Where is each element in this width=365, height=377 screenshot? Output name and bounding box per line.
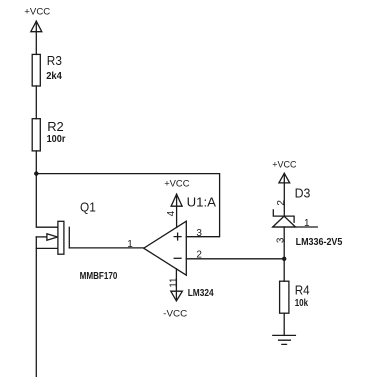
resistor R4 body [280,281,289,313]
op-amp plus input marker [174,233,181,240]
svg-text:1: 1 [127,239,133,250]
wire node B to R4 [283,259,285,281]
op-amp minus input marker [174,257,181,259]
wire opamp inverting input pin 2 to node B [186,258,284,260]
op-amp U1:A triangle [144,221,187,275]
svg-text:1: 1 [304,218,310,229]
transistor Q1 gate electrode [68,227,70,248]
wire node A down to Q1 drain [36,174,58,228]
power +VCC arrow (D3) [279,173,290,183]
wire R4 to ground [283,313,285,335]
diode D3 anode triangle [273,216,296,227]
wire opamp pin 11 [175,269,177,301]
svg-text:LM324: LM324 [188,288,214,299]
power -VCC arrow (op-amp pin 11) [171,291,183,301]
svg-text:2: 2 [276,200,287,206]
svg-text:3: 3 [196,228,202,239]
svg-text:R4: R4 [295,283,310,298]
svg-text:D3: D3 [295,186,311,201]
wire R2 to node A [35,151,37,174]
resistor R3 body [32,54,40,86]
svg-text:R2: R2 [47,119,64,134]
svg-text:+VCC: +VCC [272,159,296,170]
Q1 bulk arrow [47,234,58,241]
wire Q1 gate to opamp output [69,247,143,249]
svg-text:4: 4 [166,210,177,216]
svg-text:U1:A: U1:A [187,194,217,209]
wire VCC arrow to R3 [35,21,37,54]
svg-text:-VCC: -VCC [163,309,187,320]
ground symbol [273,335,296,344]
resistor R2 body [32,119,40,151]
wire opamp pin 4 [176,194,178,227]
svg-text:LM336-2V5: LM336-2V5 [296,237,343,248]
power +VCC arrow symbol (left rail) [31,21,42,32]
svg-text:11: 11 [168,277,179,288]
svg-text:100r: 100r [47,134,66,145]
svg-text:3: 3 [276,237,287,243]
svg-text:+VCC: +VCC [164,179,189,190]
transistor Q1 body bar [58,221,64,254]
node A junction dot [34,171,38,175]
diode D3 zener cathode bar [273,210,294,222]
wire R3 to R2 [35,86,37,119]
svg-text:Q1: Q1 [80,200,96,215]
power +VCC arrow (op-amp pin 4) [171,194,182,206]
wire Q1 bulk to source rail [36,236,47,238]
wire VCC arrow to D3 cathode [283,173,285,216]
wire source rail down to page bottom [35,237,37,377]
wire feedback node A to opamp noninverting input [36,174,219,237]
svg-text:2k4: 2k4 [46,71,62,82]
svg-text:+VCC: +VCC [24,7,50,18]
wire D3 anode to node B [283,227,285,259]
node B junction dot [282,257,286,261]
wire Q1 source [36,247,58,249]
svg-text:MMBF170: MMBF170 [80,271,118,282]
svg-text:R3: R3 [47,53,62,68]
wire D3 pin 1 stub [273,226,318,228]
svg-text:10k: 10k [295,298,309,309]
